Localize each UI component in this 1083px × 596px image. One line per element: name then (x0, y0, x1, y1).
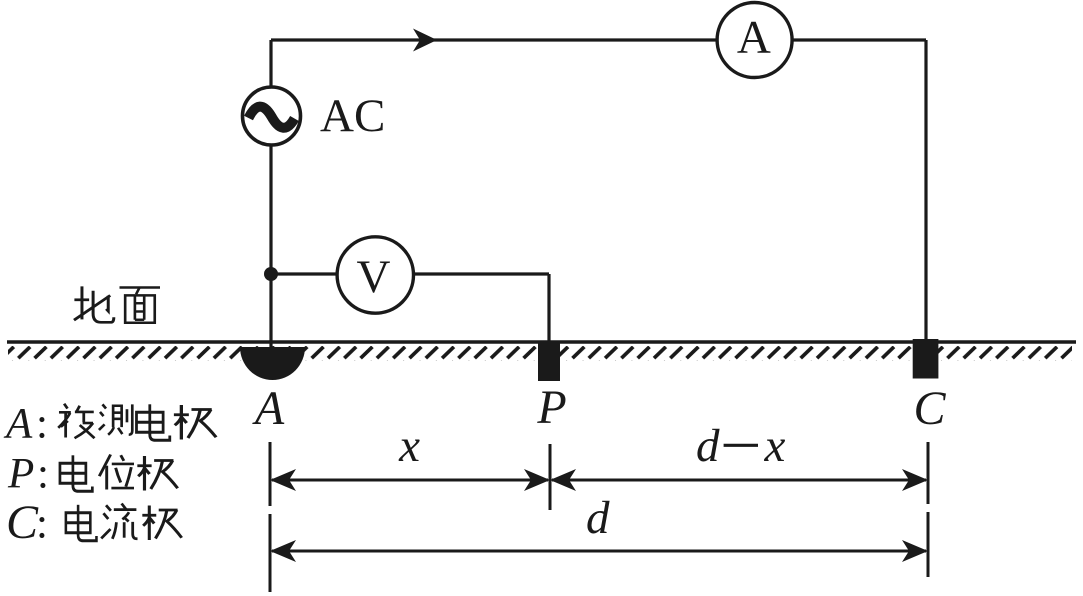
svg-text:A: A (3, 401, 33, 448)
label P electrode (536, 381, 566, 434)
svg-text:A: A (737, 12, 771, 64)
ammeter A (717, 3, 792, 78)
dimension x arrow (270, 469, 550, 491)
svg-text:x: x (764, 420, 786, 472)
svg-text:AC: AC (320, 90, 385, 142)
label AC (320, 90, 385, 142)
tick below A upper (269, 442, 272, 506)
electrode P (rod) (538, 341, 560, 381)
legend C (6, 496, 182, 549)
label d (586, 492, 610, 544)
tick below C lower (927, 512, 930, 577)
tick below C upper (927, 442, 930, 504)
svg-text:P: P (7, 451, 34, 498)
electrode C (rod) (913, 339, 939, 379)
dimension d-x arrow (550, 469, 928, 491)
ground surface line (7, 340, 1076, 343)
svg-text:d: d (696, 420, 720, 472)
svg-text:x: x (398, 420, 420, 472)
label ground surface (di mian) (74, 286, 160, 322)
svg-text:P: P (536, 381, 566, 434)
AC source circle (243, 87, 301, 145)
svg-text:C: C (6, 496, 39, 549)
tick below P (549, 444, 552, 510)
svg-text::: : (37, 451, 49, 498)
label d-x (696, 420, 786, 472)
tick below A lower (269, 514, 272, 592)
dimension d arrow (270, 540, 928, 562)
ground hatching (8, 346, 1072, 361)
svg-text::: : (36, 401, 48, 448)
wire voltmeter branch (271, 272, 549, 275)
wire P vertical (547, 274, 550, 342)
wire right vertical (924, 40, 927, 341)
voltmeter V (337, 237, 413, 313)
svg-text:A: A (252, 382, 285, 435)
svg-text:C: C (913, 382, 946, 435)
wire top horizontal (271, 38, 926, 41)
svg-text::: : (36, 501, 48, 548)
label x (398, 420, 420, 472)
legend A (3, 401, 216, 448)
label C electrode (913, 382, 946, 435)
node junction dot (264, 267, 278, 281)
svg-text:d: d (586, 492, 610, 544)
wire left vertical (269, 40, 272, 347)
legend P (7, 451, 178, 498)
current direction arrow (413, 29, 437, 52)
label A electrode (252, 382, 285, 435)
svg-text:V: V (357, 251, 391, 303)
electrode A (hemisphere) (240, 347, 305, 380)
